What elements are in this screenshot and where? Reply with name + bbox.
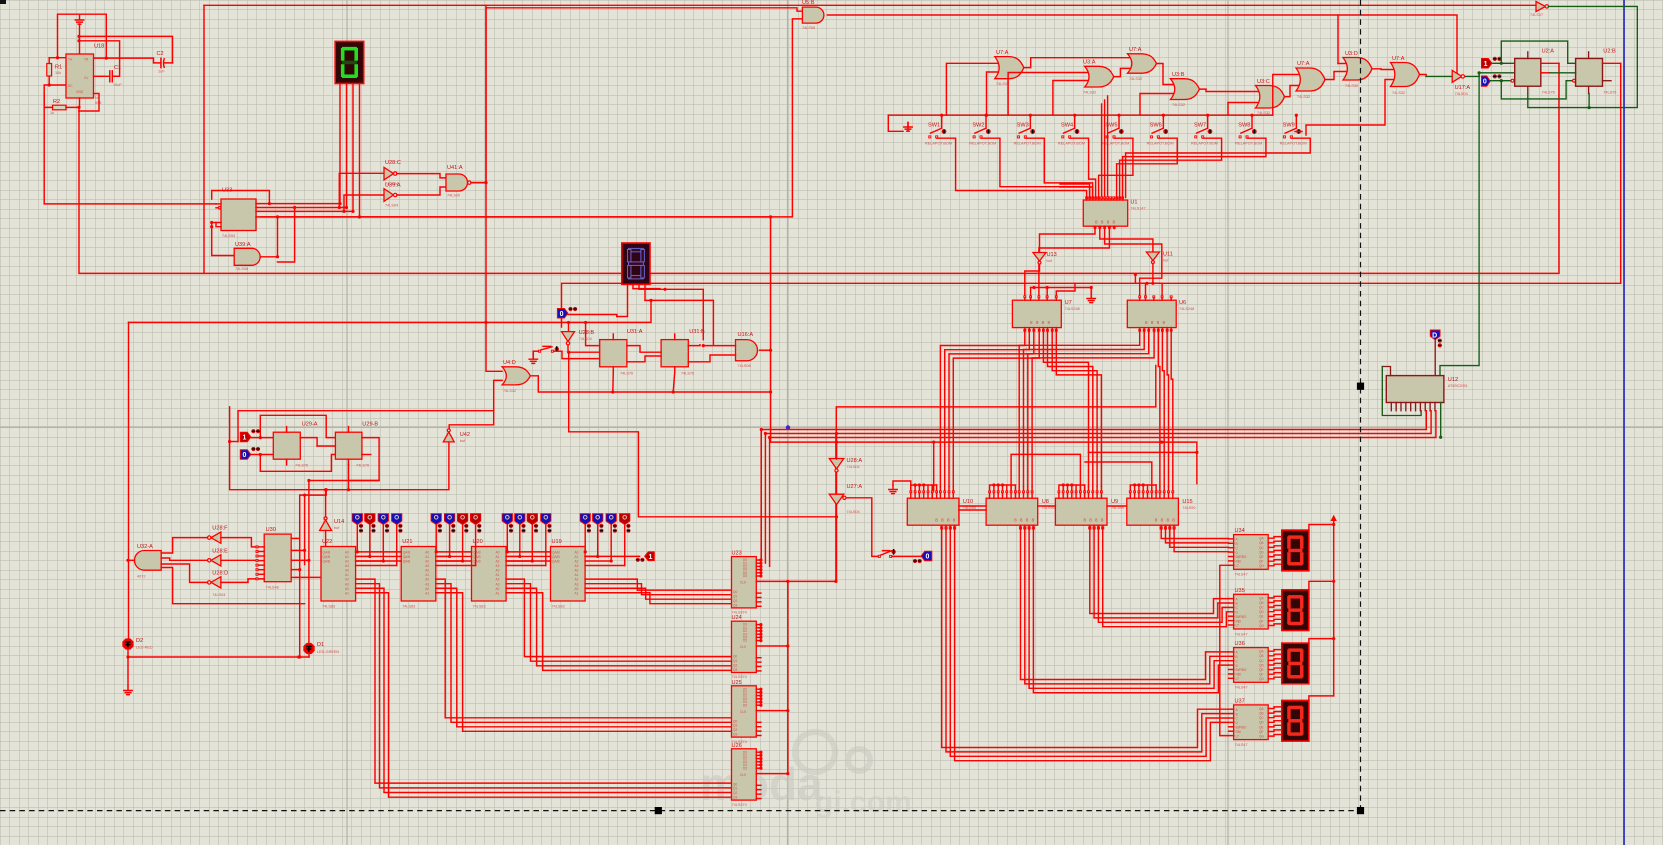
- wire net y283 U6 top: [1135, 282, 1160, 284]
- chip U37 left pin stubs: [1229, 709, 1234, 735]
- selection dashed horizontal: [0, 810, 1361, 812]
- chip U15 bottom pins: [1160, 525, 1175, 529]
- chip U35 driver: [1234, 594, 1269, 629]
- capacitor C2: [161, 58, 173, 67]
- logic state 1 tag U29: [240, 432, 251, 442]
- svg-text:74LS32: 74LS32: [996, 82, 1009, 86]
- svg-text:U23: U23: [732, 551, 742, 557]
- wire U17:A output to U2:A clk: [1464, 75, 1480, 77]
- wire QB riser to U28:C: [339, 173, 384, 207]
- svg-text:1k: 1k: [50, 111, 54, 115]
- svg-text:8 8 8 8: 8 8 8 8: [1095, 220, 1116, 225]
- svg-text:RELAPOT.BOM: RELAPOT.BOM: [1058, 142, 1085, 146]
- chip U33: [221, 199, 256, 231]
- wire latch clk chain vertical: [787, 581, 789, 773]
- wire green vertical from U17 to U12: [1440, 73, 1479, 376]
- svg-text:U37: U37: [1235, 698, 1245, 704]
- wire U39:A second input: [278, 208, 295, 263]
- resistor R1: [48, 58, 50, 64]
- wire U3:D in1 from top: [1338, 63, 1346, 65]
- svg-text:74LS47: 74LS47: [1235, 632, 1248, 636]
- svg-text:D5: D5: [743, 703, 747, 707]
- bus U22 to U26: [356, 579, 732, 783]
- flip-flop U31:A: [600, 340, 627, 367]
- bus U19 to U23: [585, 579, 731, 590]
- svg-text:74LS32: 74LS32: [1129, 77, 1142, 81]
- wire U7:A3 out to U3:D: [1325, 72, 1346, 80]
- svg-text:QA/B: QA/B: [323, 560, 331, 564]
- svg-text:U39:A: U39:A: [385, 183, 401, 189]
- wire U7:A3 in1: [1273, 75, 1299, 116]
- svg-text:U3:C: U3:C: [1257, 79, 1270, 85]
- wire U36 outputs to display: [1268, 650, 1282, 679]
- wire U37 outputs to display: [1268, 707, 1282, 736]
- wire U32:A output to left rail: [128, 559, 135, 561]
- wire U29:A Q to U29:B clk: [300, 438, 335, 446]
- chip U30 left pins: [256, 546, 258, 548]
- or gate U32:A mirrored: [135, 551, 162, 571]
- svg-text:U24: U24: [732, 615, 742, 621]
- svg-text:LED-GREEN: LED-GREEN: [317, 650, 339, 654]
- svg-text:U8: U8: [1042, 499, 1049, 505]
- wire vertical below U27:A to clk chain: [836, 505, 838, 582]
- wire C1 net y40: [79, 41, 120, 77]
- svg-text:CLK: CLK: [740, 645, 747, 649]
- svg-text:BI/RBO: BI/RBO: [1236, 615, 1247, 619]
- svg-text:10k: 10k: [55, 71, 61, 75]
- chip U23 right pin stubs: [756, 558, 762, 606]
- wire SW4 to bus: [1074, 115, 1076, 128]
- inverter U28:E: [211, 555, 221, 566]
- chip U9 bottom pins: [1089, 525, 1104, 529]
- svg-text:A1: A1: [575, 591, 579, 595]
- chip U30: [264, 534, 291, 582]
- svg-text:74LS83: 74LS83: [552, 605, 565, 609]
- svg-text:QE: QE: [1259, 725, 1264, 729]
- svg-text:74LS32: 74LS32: [1392, 91, 1405, 95]
- svg-text:74LS374: 74LS374: [732, 675, 747, 679]
- svg-text:U31:B: U31:B: [689, 329, 705, 335]
- wire U15 top pin chain: [1130, 485, 1156, 491]
- resistor R2: [53, 105, 67, 110]
- svg-text:C1: C1: [114, 65, 121, 71]
- wire U3:B out to U3:C: [1199, 89, 1258, 91]
- or gate U3:C: [1256, 86, 1285, 109]
- svg-text:RBI: RBI: [1236, 560, 1241, 564]
- wire SW9 to bus: [1295, 115, 1297, 128]
- svg-text:CLK: CLK: [740, 773, 747, 777]
- svg-text:Q1: Q1: [733, 659, 737, 663]
- wire U14 top to U29 loop: [325, 490, 327, 517]
- svg-text:1uF: 1uF: [158, 70, 165, 74]
- wire net y287 U7 top: [1031, 287, 1092, 289]
- wire long net y283 to U2:B Q drop: [562, 63, 1621, 327]
- svg-text:QA/B: QA/B: [403, 560, 411, 564]
- inverter U28:A mid: [384, 189, 394, 202]
- svg-text:U3:B: U3:B: [1172, 72, 1185, 78]
- wire U19 right pins to 1 tag: [585, 555, 640, 557]
- chip U7: [1012, 300, 1061, 327]
- wire 0 tag to display pin: [568, 315, 617, 317]
- wire QC riser to U28:A input: [344, 195, 384, 211]
- svg-text:U36: U36: [1235, 641, 1245, 647]
- wire U33 lower-left pins to U39:A: [216, 223, 221, 227]
- svg-text:TR: TR: [84, 58, 89, 62]
- selection dashed vertical: [1360, 0, 1362, 811]
- 7-segment display red U34: [1282, 530, 1309, 571]
- svg-text:74LS374: 74LS374: [732, 611, 747, 615]
- svg-text:74LS04: 74LS04: [847, 510, 860, 514]
- svg-text:A2: A2: [496, 578, 500, 582]
- wire U2:A Q red down: [1541, 62, 1559, 64]
- wire U3:A out to U7:A2: [1114, 68, 1130, 76]
- chip U6 bottom pins: [1139, 329, 1141, 331]
- svg-text:QD: QD: [1259, 721, 1264, 725]
- wire riser x308 to LED D1: [308, 481, 310, 644]
- wire U33 QD long net to U5:B input2 and U16:A output riser: [261, 19, 802, 217]
- or gate U3:A: [1085, 66, 1114, 87]
- svg-text:QF: QF: [1259, 730, 1263, 734]
- wire U16:A in2: [688, 355, 735, 362]
- svg-text:74LS76: 74LS76: [295, 464, 308, 468]
- buffer U42: [443, 432, 454, 442]
- wire U29 drops to U30 area: [299, 437, 301, 439]
- inverter U28:A left: [829, 459, 844, 469]
- wire U11 out to U6: [1152, 264, 1154, 284]
- svg-text:QD: QD: [1259, 663, 1264, 667]
- svg-text:A0: A0: [575, 587, 579, 591]
- svg-text:Q2: Q2: [733, 791, 737, 795]
- svg-text:1: 1: [1484, 61, 1488, 68]
- svg-text:QA/B: QA/B: [552, 560, 560, 564]
- chip U15: [1127, 498, 1179, 525]
- ground left of U10: [893, 481, 911, 491]
- wire U41:A output to U5:B input: [470, 8, 802, 183]
- wire clock link U8 U9: [1011, 454, 1080, 490]
- svg-text:QE: QE: [1259, 615, 1264, 619]
- chip U36 left pin stubs: [1229, 652, 1234, 678]
- wire riser U16:A output x770: [770, 217, 772, 442]
- wire top net y5 to buffer U10:A: [204, 4, 1536, 6]
- svg-text:8 8 8 8: 8 8 8 8: [1083, 518, 1104, 523]
- svg-text:U28:C: U28:C: [385, 160, 401, 166]
- svg-text:A2: A2: [425, 578, 429, 582]
- svg-text:A3: A3: [496, 564, 500, 568]
- wire buffer output green to right loop: [1549, 6, 1638, 107]
- svg-text:A1: A1: [575, 573, 579, 577]
- svg-text:74LS04: 74LS04: [847, 465, 860, 469]
- svg-text:C2: C2: [157, 51, 164, 57]
- svg-text:QF: QF: [1259, 619, 1263, 623]
- 7-segment display red U36: [1282, 643, 1309, 684]
- wire U4:D output bus y392: [530, 376, 770, 392]
- wire U10 top pin chain: [911, 485, 937, 491]
- wire SW3 to bus: [1029, 115, 1031, 128]
- svg-text:74LS32: 74LS32: [1083, 91, 1096, 95]
- svg-text:A1: A1: [425, 555, 429, 559]
- svg-text:74LS04: 74LS04: [1455, 92, 1468, 96]
- wire U41:A output stub: [471, 182, 486, 184]
- svg-text:A3: A3: [496, 582, 500, 586]
- logic state 0 tag mid: [557, 309, 568, 319]
- svg-text:A3: A3: [575, 564, 579, 568]
- wire U18 right pins: [94, 75, 105, 77]
- wire U10 bottom bundle to U37: [942, 529, 1229, 747]
- wire U7:A4 in2 riser from SW9: [1306, 80, 1393, 136]
- chip U7 bottom pins: [1024, 329, 1026, 331]
- chip U10: [907, 498, 959, 525]
- svg-text:A3: A3: [345, 582, 349, 586]
- svg-text:74LS08: 74LS08: [738, 364, 751, 368]
- chip U24 right pin stubs: [756, 623, 762, 671]
- wire U26 clk to chain: [756, 773, 788, 775]
- chip U8 bottom pins: [1019, 525, 1034, 529]
- svg-text:Q2: Q2: [733, 728, 737, 732]
- svg-text:U29-A: U29-A: [302, 422, 318, 428]
- svg-text:A0: A0: [425, 587, 429, 591]
- wire D2 to ground: [127, 650, 129, 686]
- chip U12 left pin loop green: [1382, 367, 1390, 376]
- wire R2 right to bottom node: [66, 107, 79, 111]
- and gate U5:B: [802, 7, 824, 23]
- svg-text:Q1: Q1: [733, 787, 737, 791]
- svg-text:A2: A2: [496, 560, 500, 564]
- svg-text:A0: A0: [345, 569, 349, 573]
- wire purple display pins: [617, 284, 628, 316]
- svg-text:QG: QG: [1259, 624, 1264, 628]
- push button to ground mid: [533, 350, 538, 352]
- wire U7:A1 out to U7:A2: [1024, 58, 1130, 68]
- svg-text:74LS83: 74LS83: [322, 605, 335, 609]
- svg-text:74LS248: 74LS248: [1065, 307, 1080, 311]
- svg-text:QG: QG: [1259, 677, 1264, 681]
- nand gate U41:A: [446, 174, 468, 191]
- svg-text:SW1: SW1: [928, 123, 940, 129]
- logic probe 14: [593, 514, 603, 525]
- svg-text:D1: D1: [317, 642, 324, 648]
- svg-text:A2: A2: [345, 560, 349, 564]
- wire U8 top pin chain: [990, 485, 1016, 491]
- wire aux net y452: [1088, 451, 1197, 453]
- svg-text:74LS48: 74LS48: [266, 586, 279, 590]
- svg-text:8 8 8 8: 8 8 8 8: [1014, 518, 1035, 523]
- wire U9 bottom bundle to U35: [1090, 529, 1229, 613]
- wire U23 output risers: [760, 430, 762, 560]
- wire D tag to U12: [1434, 340, 1436, 376]
- led D1: [304, 643, 314, 653]
- wire U35 outputs to display: [1268, 596, 1282, 625]
- svg-text:A1: A1: [345, 555, 349, 559]
- wire clock link U15: [1085, 462, 1152, 491]
- or gate U4:D: [502, 367, 530, 385]
- svg-text:A0: A0: [425, 569, 429, 573]
- chip U22: [321, 547, 356, 602]
- svg-text:U7:A: U7:A: [1129, 47, 1142, 53]
- svg-text:LED-RED: LED-RED: [136, 646, 153, 650]
- wire U5:B output to U17:A region: [827, 15, 1457, 73]
- svg-text:U9: U9: [1111, 499, 1118, 505]
- svg-text:QA/B: QA/B: [473, 560, 481, 564]
- wire U7:A2 out to U3:B: [1157, 64, 1174, 85]
- wire U1 left pin bends: [1060, 184, 1090, 197]
- svg-text:Q3: Q3: [733, 796, 737, 800]
- logic probe 10: [515, 514, 525, 525]
- svg-text:74LS07: 74LS07: [1530, 13, 1543, 17]
- wire U12 bottom red bus to left: [761, 411, 1426, 430]
- logic probe 6: [444, 514, 454, 525]
- chip U12: [1386, 376, 1444, 403]
- svg-text:74LS32: 74LS32: [503, 389, 516, 393]
- wire U18 TR to C2 left: [94, 58, 161, 63]
- wire U28:F output to U32:A in1: [161, 538, 207, 553]
- wire 0 tag to U2:A K: [1490, 80, 1510, 82]
- svg-text:U2:A: U2:A: [1542, 49, 1555, 55]
- svg-text:74LS04: 74LS04: [212, 593, 225, 597]
- chip U25 right pin stubs: [756, 688, 762, 736]
- svg-text:SW6: SW6: [1150, 123, 1162, 129]
- wire U2:B Qb stub: [1603, 80, 1612, 82]
- wire region box left edge x204: [203, 5, 205, 273]
- switch SW9 lower wire: [1295, 131, 1302, 133]
- svg-text:555: 555: [95, 101, 101, 105]
- wire SW8 to bus: [1251, 115, 1253, 128]
- wire U34 outputs to display: [1268, 537, 1282, 566]
- buffer U13: [1033, 253, 1046, 262]
- logic probe 2: [365, 514, 375, 525]
- wire switch bus y115: [888, 114, 1273, 116]
- wire U29 feedback loop bottom: [260, 455, 335, 472]
- chip U36 driver: [1234, 648, 1269, 683]
- svg-text:U41:A: U41:A: [447, 165, 463, 171]
- svg-text:74LS00: 74LS00: [447, 194, 460, 198]
- svg-text:QB: QB: [1259, 601, 1264, 605]
- svg-text:Q3: Q3: [733, 733, 737, 737]
- flip-flop U31:B: [661, 340, 688, 367]
- chip U26: [732, 749, 757, 800]
- svg-text:U16:A: U16:A: [738, 332, 754, 338]
- logic state 1 tag U2: [1482, 59, 1492, 69]
- svg-text:A0: A0: [575, 551, 579, 555]
- svg-text:GND: GND: [76, 90, 84, 94]
- svg-text:RELAPOT.BOM: RELAPOT.BOM: [969, 142, 996, 146]
- logic state 0 tag near U10: [921, 551, 932, 561]
- svg-text:SW9: SW9: [1283, 123, 1295, 129]
- svg-text:A0: A0: [345, 551, 349, 555]
- wire U16:A output to riser: [760, 349, 771, 351]
- logic probe 15: [606, 514, 616, 525]
- svg-text:74LS32: 74LS32: [1297, 95, 1310, 99]
- svg-text:U29-B: U29-B: [362, 422, 378, 428]
- wire latch clock net from U28:B down to CLK chain: [569, 352, 837, 517]
- svg-text:8 8 8 8: 8 8 8 8: [1145, 320, 1166, 325]
- svg-text:A2: A2: [575, 560, 579, 564]
- svg-text:U14: U14: [334, 519, 344, 525]
- svg-text:Q1: Q1: [733, 724, 737, 728]
- wire U33 QD output: [256, 216, 771, 218]
- svg-text:U22: U22: [322, 539, 332, 545]
- svg-text:A1: A1: [575, 555, 579, 559]
- wire U29 clk net y410: [238, 411, 494, 442]
- chip U25: [732, 686, 757, 737]
- wire U33 QC output: [256, 210, 353, 212]
- logic state 0 tag U2: [1482, 76, 1491, 86]
- logic probe 5: [431, 514, 441, 525]
- svg-text:U28:A: U28:A: [847, 458, 863, 464]
- wire U31:A Qb: [627, 356, 661, 362]
- capacitor C1: [104, 71, 118, 82]
- svg-text:0: 0: [560, 311, 564, 318]
- wire net y322 junctions: [567, 321, 570, 324]
- svg-text:TH: TH: [68, 58, 73, 62]
- wire U3:A inputs: [1008, 73, 1087, 116]
- svg-text:74LS83: 74LS83: [473, 605, 486, 609]
- svg-text:8 8 8 8: 8 8 8 8: [1155, 518, 1176, 523]
- wire display b net: [633, 288, 660, 290]
- flip-flop U29:A: [273, 432, 300, 459]
- logic probe 9: [502, 514, 512, 525]
- chip U1: [1083, 200, 1127, 226]
- wire SW1 to bus: [941, 115, 943, 128]
- svg-text:74LS93: 74LS93: [222, 234, 235, 238]
- svg-text:U3:D: U3:D: [1345, 51, 1358, 57]
- wire U13 out to U7: [1025, 264, 1040, 295]
- wire U23 clk to chain: [756, 580, 788, 582]
- inverter U17:A: [1452, 70, 1462, 82]
- wire U1 bottom to U11: [1100, 229, 1153, 252]
- svg-text:A3: A3: [575, 582, 579, 586]
- wire U1 bottom pin4 down: [1039, 229, 1110, 295]
- svg-text:74LS374: 74LS374: [732, 803, 747, 807]
- svg-text:U34: U34: [1235, 528, 1245, 534]
- or gate U3:D: [1343, 58, 1372, 81]
- svg-text:U39:A: U39:A: [235, 242, 251, 248]
- push switch near U10: [878, 555, 880, 557]
- inverter U28:F: [211, 532, 221, 543]
- wire SW6-SW9 staircase to U1: [1117, 138, 1178, 197]
- wire U2:A Qb to U2:B clk green: [1541, 72, 1550, 74]
- buffer top right 74LS07: [1536, 2, 1546, 12]
- wire SW5 to bus: [1118, 115, 1120, 128]
- or gate U7:A third: [1296, 68, 1325, 91]
- inverter U28:D: [211, 577, 221, 588]
- svg-text:D5: D5: [743, 766, 747, 770]
- logic probe 7: [457, 514, 467, 525]
- power arrow: [1331, 515, 1337, 521]
- svg-text:Q3: Q3: [733, 668, 737, 672]
- wire probe risers group: [356, 551, 358, 553]
- svg-text:QG: QG: [1259, 735, 1264, 739]
- chip U1 top pin squares: [1086, 197, 1088, 199]
- chip U23: [732, 557, 757, 608]
- svg-text:U15: U15: [1182, 499, 1192, 505]
- bus U6 outputs to U15: [1158, 332, 1160, 487]
- svg-text:SW2: SW2: [972, 123, 984, 129]
- wire U14 bottom to U22: [325, 531, 327, 547]
- svg-text:0: 0: [243, 452, 247, 459]
- svg-text:CLK: CLK: [740, 710, 747, 714]
- chip U10 bottom pins: [941, 525, 956, 529]
- svg-text:QC: QC: [1259, 659, 1264, 663]
- svg-text:10uF: 10uF: [113, 83, 122, 87]
- svg-text:A3: A3: [345, 564, 349, 568]
- chip U12 bottom pins: [1390, 403, 1392, 411]
- svg-text:D5: D5: [743, 639, 747, 643]
- wire green loop bottom U2: [1501, 81, 1572, 99]
- svg-text:A0: A0: [496, 587, 500, 591]
- svg-text:U5:B: U5:B: [802, 0, 815, 6]
- svg-text:Q1: Q1: [733, 595, 737, 599]
- svg-text:A1: A1: [425, 591, 429, 595]
